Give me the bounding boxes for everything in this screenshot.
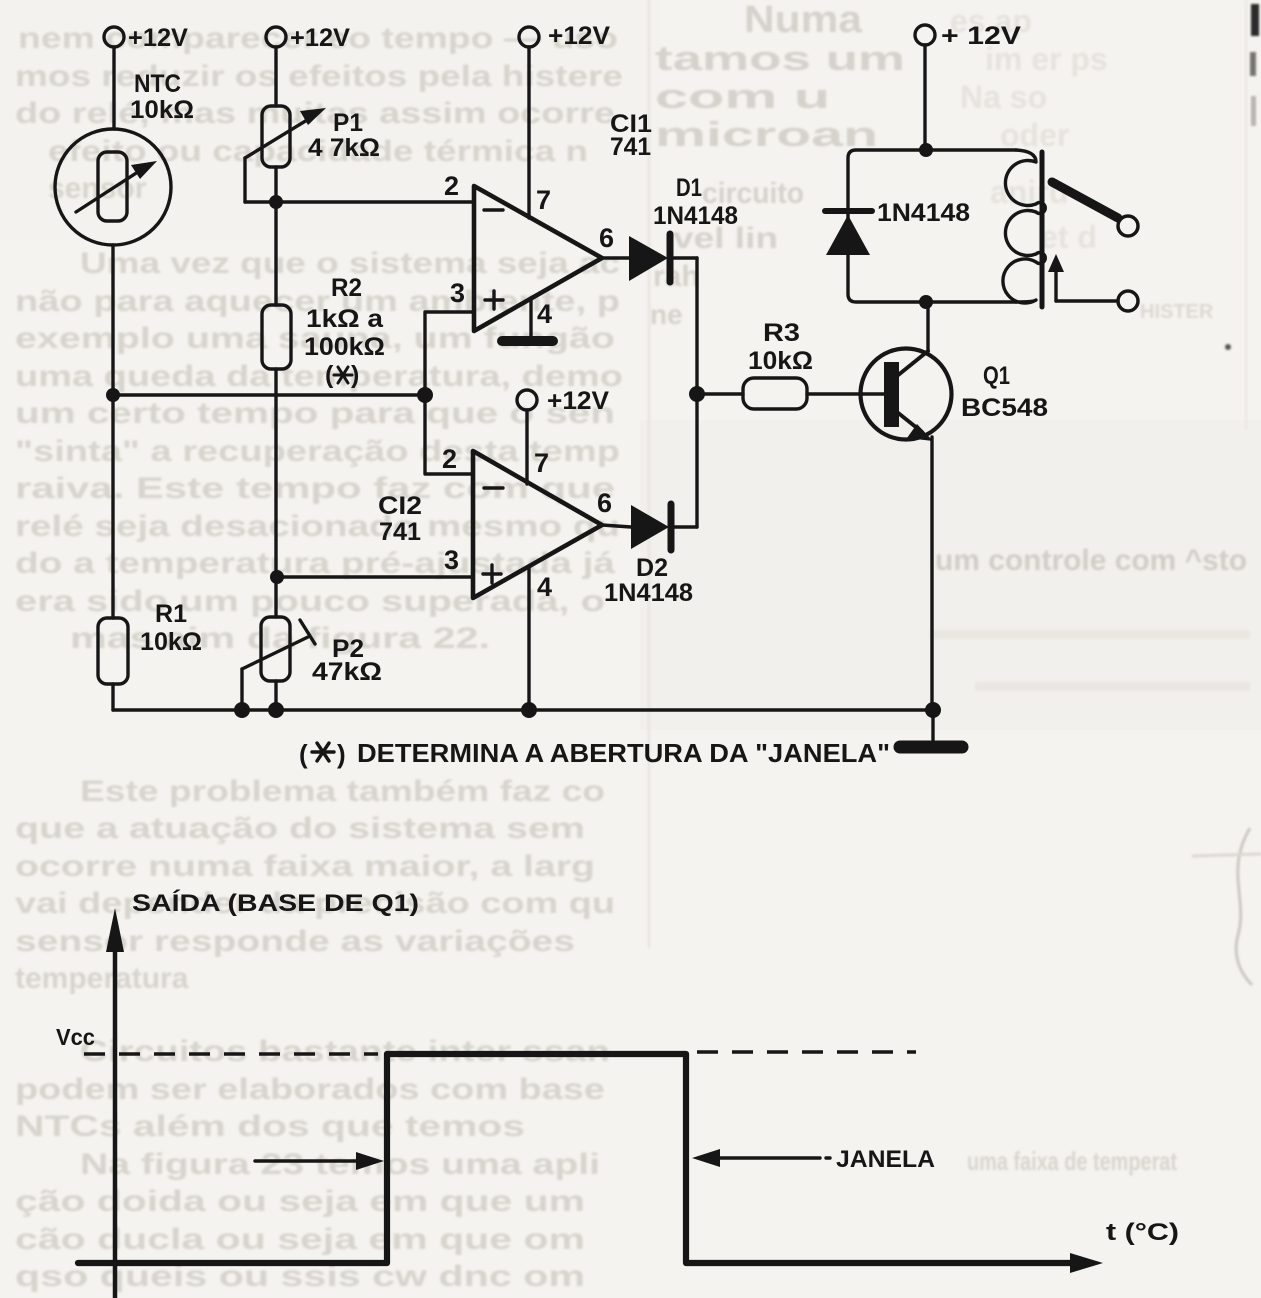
svg-text:com u: com u bbox=[655, 78, 830, 116]
svg-text:4: 4 bbox=[537, 299, 552, 329]
svg-text:100kΩ: 100kΩ bbox=[304, 333, 385, 361]
svg-text:): ) bbox=[337, 739, 346, 769]
svg-text:D2: D2 bbox=[636, 554, 668, 582]
svg-text:NTCs além dos que temos: NTCs além dos que temos bbox=[15, 1110, 525, 1143]
svg-text:um controle com ^sto: um controle com ^sto bbox=[935, 544, 1247, 577]
svg-text:CI2: CI2 bbox=[378, 492, 422, 520]
svg-text:741: 741 bbox=[379, 518, 421, 546]
svg-text:ne: ne bbox=[650, 299, 683, 330]
svg-text:Q1: Q1 bbox=[983, 362, 1010, 390]
svg-text:"sinta" a recuperação desta te: "sinta" a recuperação desta temp bbox=[15, 435, 620, 468]
svg-text:oder: oder bbox=[1000, 117, 1069, 153]
svg-text:era sido um pouco superada, o: era sido um pouco superada, o bbox=[15, 585, 605, 618]
svg-text:1N4148: 1N4148 bbox=[653, 202, 738, 230]
svg-text:um certo tempo para que o sen: um certo tempo para que o sen bbox=[15, 397, 615, 430]
svg-text:2: 2 bbox=[442, 444, 457, 474]
svg-text:uma queda da temperatura, demo: uma queda da temperatura, demo bbox=[15, 360, 623, 393]
svg-text:P1: P1 bbox=[333, 109, 363, 137]
svg-text:SAÍDA (BASE DE Q1): SAÍDA (BASE DE Q1) bbox=[132, 889, 419, 917]
svg-text:Este problema também faz co: Este problema também faz co bbox=[80, 775, 605, 808]
svg-text:R3: R3 bbox=[763, 319, 800, 347]
svg-text:2: 2 bbox=[444, 171, 459, 201]
svg-text:BC548: BC548 bbox=[961, 394, 1048, 422]
svg-text:+12V: +12V bbox=[128, 24, 188, 52]
svg-text:1N4148: 1N4148 bbox=[604, 579, 693, 607]
svg-text:podem ser elaborados com base: podem ser elaborados com base bbox=[15, 1073, 605, 1106]
svg-text:10kΩ: 10kΩ bbox=[748, 347, 813, 375]
svg-text:microan: microan bbox=[655, 116, 878, 154]
svg-text:7: 7 bbox=[534, 448, 549, 478]
svg-text:6: 6 bbox=[599, 223, 614, 253]
svg-text:do a temperatura pré-ajustada: do a temperatura pré-ajustada já bbox=[15, 547, 615, 580]
svg-text:rah: rah bbox=[653, 260, 700, 293]
svg-text:Na so: Na so bbox=[960, 79, 1047, 115]
svg-text:D1: D1 bbox=[676, 174, 702, 202]
svg-text:NTC: NTC bbox=[134, 70, 181, 98]
svg-text:741: 741 bbox=[610, 133, 651, 161]
svg-text:+ 12V: + 12V bbox=[941, 22, 1021, 50]
svg-text:ocorre numa faixa maior, a lar: ocorre numa faixa maior, a larg bbox=[15, 850, 595, 883]
svg-text:7: 7 bbox=[536, 185, 551, 215]
svg-text:(: ( bbox=[299, 739, 308, 769]
svg-text:JANELA: JANELA bbox=[836, 1146, 935, 1173]
svg-text:3: 3 bbox=[450, 278, 465, 308]
svg-text:raiva. Este tempo faz com que: raiva. Este tempo faz com que bbox=[15, 472, 615, 505]
svg-text:R1: R1 bbox=[155, 600, 187, 628]
svg-text:ção doida ou seja em que um: ção doida ou seja em que um bbox=[15, 1185, 585, 1218]
svg-text:4 7kΩ: 4 7kΩ bbox=[308, 134, 380, 162]
svg-text:HISTER: HISTER bbox=[1140, 301, 1214, 323]
svg-text:et d: et d bbox=[1040, 219, 1097, 255]
svg-text:47kΩ: 47kΩ bbox=[312, 658, 382, 686]
svg-text:3: 3 bbox=[444, 545, 459, 575]
svg-text:10kΩ: 10kΩ bbox=[140, 628, 202, 656]
svg-text:R2: R2 bbox=[331, 274, 362, 302]
svg-text:1N4148: 1N4148 bbox=[877, 199, 970, 227]
svg-text:+12V: +12V bbox=[548, 22, 610, 50]
svg-text:Vcc: Vcc bbox=[56, 1024, 95, 1050]
svg-text:+12V: +12V bbox=[547, 387, 609, 415]
svg-text:mos reduzir os efeitos pela hi: mos reduzir os efeitos pela histere bbox=[15, 60, 623, 93]
svg-text:que a atuação do sistema sem: que a atuação do sistema sem bbox=[15, 812, 585, 845]
svg-text:uma faixa de temperat: uma faixa de temperat bbox=[967, 1146, 1177, 1176]
svg-text:cão ducla ou seja em que om: cão ducla ou seja em que om bbox=[15, 1223, 585, 1256]
svg-text:1kΩ a: 1kΩ a bbox=[306, 305, 384, 333]
svg-text:t (°C): t (°C) bbox=[1106, 1219, 1179, 1246]
svg-text:10kΩ: 10kΩ bbox=[130, 96, 194, 124]
svg-text:Na figura 23 temos uma apli: Na figura 23 temos uma apli bbox=[80, 1148, 600, 1181]
svg-text:4: 4 bbox=[537, 572, 552, 602]
svg-text:+12V: +12V bbox=[290, 24, 350, 52]
svg-text:temperatura: temperatura bbox=[15, 962, 189, 995]
svg-text:sensor responde as variações: sensor responde as variações bbox=[15, 925, 575, 958]
svg-text:6: 6 bbox=[597, 488, 612, 518]
svg-text:tamos um: tamos um bbox=[655, 40, 905, 78]
svg-text:Numa: Numa bbox=[744, 0, 863, 41]
svg-text:relé seja desacionado mesmo qu: relé seja desacionado mesmo qu bbox=[15, 510, 620, 543]
svg-text:DETERMINA A ABERTURA DA "J: DETERMINA A ABERTURA DA "JANELA" bbox=[357, 738, 890, 768]
